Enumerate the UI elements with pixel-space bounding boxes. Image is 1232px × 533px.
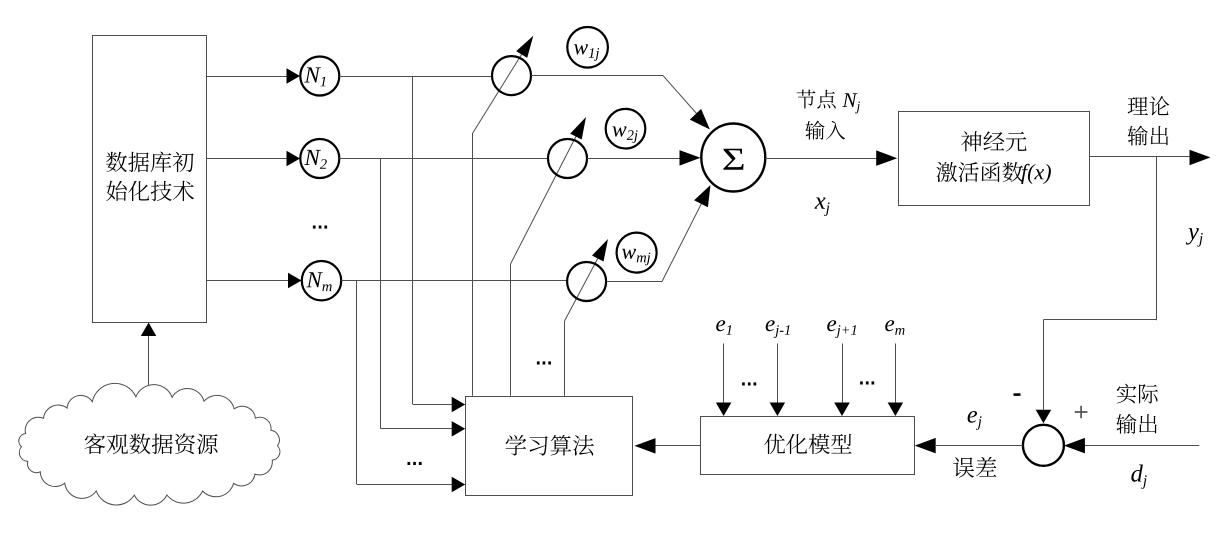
cloud: objective data resources (客观数据资源) <box>19 383 280 505</box>
label: Nm <box>306 272 331 291</box>
wire: branch N1 horizontal to learn box <box>413 404 452 406</box>
wire: ej+1 into optimization box <box>842 344 844 404</box>
circle: label wmj <box>617 233 657 273</box>
circle: weight 2 <box>548 139 587 178</box>
wire: down to comparator <box>1043 320 1045 410</box>
arrowhead: into N2 <box>287 151 301 166</box>
label: Nj after 节点 <box>842 93 860 113</box>
arrowhead: ej-1 into optimization box <box>770 403 786 417</box>
wire: learn line m diagonal <box>565 250 603 322</box>
wire: actual output into comparator <box>1084 445 1199 447</box>
text: 输出 (output) bottom <box>1116 414 1157 434</box>
text: 数据库初 line1 <box>106 152 194 173</box>
label: e1 <box>716 320 731 335</box>
wire: rect to N2 <box>207 158 288 160</box>
text: 优化模型 <box>764 434 851 454</box>
dots: between learn box arrows <box>408 462 422 465</box>
wire: branch from Nm line down <box>356 281 358 485</box>
wire: optimization to learning box <box>655 445 701 447</box>
text: 神经元 <box>961 131 1026 151</box>
wire: weight1 out diagonal to sigma <box>663 76 701 118</box>
arrowhead: into N1 <box>287 68 301 84</box>
wire: branch N2 horizontal to learn box <box>381 428 452 430</box>
wire: cloud to rect <box>148 334 150 386</box>
arrowhead: ej+1 into optimization box <box>834 403 850 417</box>
arrowhead: into learning box right <box>635 438 656 454</box>
label: ej+1 <box>827 320 856 338</box>
text: 激活函数 <box>936 162 1023 182</box>
text: 节点 (node) <box>797 90 836 109</box>
arrowhead: into Nm <box>288 273 302 288</box>
label: yj <box>1186 228 1203 247</box>
circle: comparator <box>1023 425 1064 466</box>
arrowhead: em into optimization box <box>888 403 904 417</box>
arrowhead: e1 into optimization box <box>716 403 732 417</box>
wire: learn line 2 diagonal <box>511 130 580 265</box>
circle: node Nm <box>302 261 341 300</box>
dots: between N2 and Nm <box>313 226 327 229</box>
arrowhead: cloud into rect bottom <box>141 323 157 337</box>
wire: learn line 1 diagonal <box>473 47 527 133</box>
label: wmj <box>622 249 650 266</box>
label: sigma <box>723 149 743 170</box>
circle: weight 1 <box>492 56 531 95</box>
wire: learn line m vertical <box>564 321 566 396</box>
circle: label w2j <box>606 109 646 149</box>
dots: between ej+1 and em <box>860 381 874 384</box>
arrowhead: weight m adjust <box>592 239 608 262</box>
wire: comparator to optimization box <box>936 445 1023 447</box>
text: 始化技术 line2 <box>106 181 194 201</box>
arrowhead: into learn box 3 <box>452 477 466 492</box>
arrowhead: into sigma bottom-left <box>694 185 710 207</box>
wire: learn line 2 vertical <box>510 264 512 396</box>
arrowhead: into comparator top <box>1036 410 1052 424</box>
circle: weight m <box>567 262 606 301</box>
arrowhead: into sigma left <box>680 150 701 166</box>
dots: above learn box <box>537 361 551 364</box>
circle: node N1 <box>300 57 339 96</box>
wire: N2 to weight circle 2 <box>339 158 548 160</box>
arrowhead: into neuron box <box>876 150 897 166</box>
box: learning algorithm (学习算法) <box>466 397 633 496</box>
wire: output branch vertical <box>1156 157 1158 320</box>
arrowhead: into learn box 2 <box>452 421 466 437</box>
arrowhead: final output <box>1190 150 1211 166</box>
text: 学习算法 <box>506 435 594 456</box>
wire: feedback horizontal <box>1043 319 1157 321</box>
text: 输入 (input) <box>805 121 845 140</box>
wire: branch from N1 line down <box>412 76 414 405</box>
box: neuron activation (神经元激活函数) <box>899 112 1090 206</box>
text: 输出 (output) top <box>1128 126 1169 146</box>
wire: rect to Nm <box>207 280 289 282</box>
wire: N1 to weight circle 1 <box>339 76 492 78</box>
label: w1j <box>574 44 599 61</box>
box: optimization model (优化模型) <box>701 417 915 475</box>
wire: em into optimization box <box>895 344 897 404</box>
text: 误差 (error) <box>953 457 996 478</box>
label: plus sign <box>1075 406 1088 419</box>
arrowhead: weight 2 adjust <box>570 117 586 140</box>
text: f(x) italic <box>1021 164 1051 184</box>
arrowhead: into learn box 1 <box>452 397 466 412</box>
text: 客观数据资源 <box>85 433 218 454</box>
arrowhead: into optimization box <box>915 438 936 454</box>
circle: node N2 <box>300 139 339 178</box>
wire: weight1 out horizontal <box>531 75 663 77</box>
circle: sigma summation <box>701 124 765 192</box>
box: database initialization (数据库初始化技术) <box>93 36 207 323</box>
text: 理论 (theoretical) <box>1128 96 1170 115</box>
text: 实际 (actual) <box>1117 384 1158 404</box>
wire: rect to N1 <box>207 76 288 78</box>
label: minus sign <box>1014 393 1021 396</box>
wire: neuron box to output <box>1090 156 1190 158</box>
label: xj <box>815 198 830 217</box>
label: ej <box>968 411 982 430</box>
label: N2 <box>304 150 327 169</box>
label: dj <box>1131 465 1147 489</box>
wire: weight2 out to sigma <box>587 158 682 160</box>
circle: label w1j <box>567 27 608 68</box>
wire: weightm out diagonal to sigma <box>662 199 704 282</box>
wire: Nm to weight circle m <box>341 280 567 282</box>
wire: ej-1 into optimization box <box>777 344 779 404</box>
wire: sigma to neuron box <box>765 158 877 160</box>
wire: weightm out horizontal <box>607 281 663 283</box>
label: em <box>885 320 904 335</box>
wire: branch from N2 line down <box>380 159 382 429</box>
arrowhead: into comparator right <box>1064 438 1085 454</box>
wire: learn line 1 vertical <box>472 133 474 396</box>
label: w2j <box>613 126 638 143</box>
label: N1 <box>304 67 325 86</box>
wire: e1 into optimization box <box>723 344 725 404</box>
wire: branch Nm horizontal to learn box <box>357 484 452 486</box>
arrowhead: into sigma top-left <box>690 109 710 130</box>
dots: between e1 and ej-1 <box>742 382 756 385</box>
label: ej-1 <box>766 320 790 338</box>
arrowhead: weight 1 adjust <box>516 36 533 58</box>
